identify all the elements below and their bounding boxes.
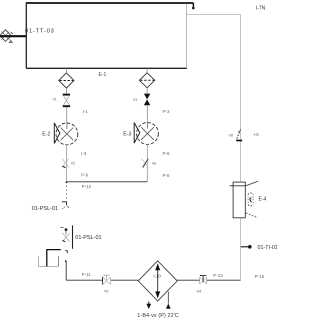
check valve V2 (left branch) [62,159,69,168]
wire PSL lower stem [72,225,74,249]
svg-text:P-11: P-11 [82,272,92,277]
svg-text:V3: V3 [133,98,137,102]
valve V3 (closed, filled) [144,94,150,106]
svg-text:1-B4-vs (P) 22'C: 1-B4-vs (P) 22'C [137,313,179,319]
check valve V4r (right branch) [142,159,149,168]
strainer diamond (left) [59,73,74,88]
svg-text:P-9: P-9 [81,172,89,177]
svg-text:P-13: P-13 [213,273,223,278]
tank T-01 right edge (light) [186,4,188,69]
bottom pipe [66,279,240,281]
wire tank to right diamond [146,68,148,73]
wire right diamond to valve V3 [146,88,148,94]
svg-text:V2: V2 [71,162,75,166]
header wire between pumps [67,181,148,183]
svg-text:4a: 4a [152,162,156,166]
svg-text:P-8: P-8 [163,173,171,178]
open sump (light walls) [39,256,59,266]
bracket fitting [65,251,67,253]
instrument at left edge (flow element) [0,30,26,43]
svg-text:I-7N: I-7N [256,5,266,11]
svg-text:P-3: P-3 [163,109,171,114]
wire pump E-3 down [146,144,148,182]
riser pipe (light) [240,15,242,281]
valve V5 (butterfly with handle) [103,275,111,284]
pressure switch PSL-01 lower symbol [60,228,69,242]
svg-text:E-1: E-1 [99,72,107,78]
svg-text:E-2: E-2 [42,131,50,137]
column E-4 [230,181,259,218]
signal wire header down to PSL tap (dotted) [65,186,67,199]
svg-text:I-5: I-5 [254,132,260,137]
pipe tank-to-riser (light) [187,14,241,16]
wire left diamond to valve V1 [65,88,67,94]
wire pump E-2 down [66,144,68,182]
svg-text:E-3: E-3 [123,131,131,137]
svg-text:I-10: I-10 [153,273,161,278]
pump E-3 [134,123,158,145]
svg-text:I-3: I-3 [81,151,87,156]
svg-text:01-TT-03: 01-TT-03 [25,29,55,35]
svg-text:V1: V1 [53,98,57,102]
tank inlet drop with arrow [192,3,194,7]
svg-text:V4: V4 [197,290,202,294]
svg-text:I-1: I-1 [83,109,89,114]
pressure switch PSL-01 flag [62,202,69,209]
valve V1 (gate valve, open) [63,95,70,107]
svg-text:01-PSL-01: 01-PSL-01 [75,235,101,241]
relief valve V8 on riser [236,130,242,141]
vent arrow (up) [166,292,171,309]
tank T-01 left edge [25,2,27,68]
drain arrow (down) [146,302,151,310]
flow diamond with double arrow [138,261,177,301]
svg-text:V8: V8 [229,134,233,138]
svg-text:E-4: E-4 [259,197,267,203]
svg-text:01-TI-01: 01-TI-01 [258,245,278,251]
node dot [65,260,67,262]
svg-text:V5: V5 [104,290,108,294]
svg-text:01-PSL-01: 01-PSL-01 [32,206,58,212]
svg-text:P-12: P-12 [82,184,92,189]
junction node [66,181,68,183]
svg-text:P-6: P-6 [163,151,171,156]
wire tank to left diamond [65,68,67,73]
weir step (dark) [47,250,61,267]
pump E-2 [54,123,78,145]
wire V3 to pump E-3 [146,105,148,123]
valve V6 (butterfly with handle, right) [200,276,207,284]
wire drop to bottom pipe [65,262,67,280]
wire V1 to pump E-2 [66,107,68,123]
tank T-01 bottom edge [26,67,187,69]
svg-text:P-15: P-15 [255,274,265,279]
tank T-01 top edge [26,2,193,4]
TI tap [241,245,252,249]
strainer diamond (right) [139,73,154,88]
